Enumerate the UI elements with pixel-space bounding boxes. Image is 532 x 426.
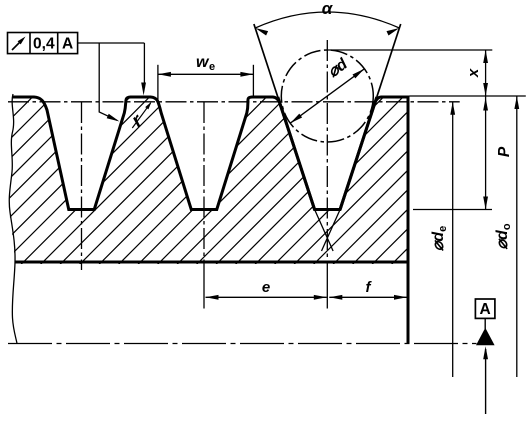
extension line right for w_e bbox=[252, 65, 254, 98]
extension of root line bbox=[413, 209, 492, 211]
thread profile outline bbox=[13, 97, 408, 210]
hatching of sectioned material bbox=[2, 90, 412, 266]
body right edge bbox=[407, 96, 410, 344]
extension of crest top line bbox=[410, 95, 526, 97]
svg-text:e: e bbox=[209, 61, 215, 73]
datum A stem bbox=[484, 318, 486, 329]
extension line for e/f (groove 3 center) bbox=[326, 264, 328, 309]
runout symbol arrow bbox=[12, 39, 23, 50]
crest reference line (dash-dot) bbox=[8, 101, 460, 103]
extension line from circle top bbox=[327, 49, 492, 51]
dimension x bbox=[485, 50, 487, 96]
diameter line d_o bbox=[516, 96, 518, 377]
thread flank extended (V left wall) bbox=[254, 24, 278, 97]
datum A filled triangle bbox=[476, 328, 495, 345]
break line (wavy) bbox=[9, 94, 17, 344]
groove 2 center line bbox=[203, 102, 205, 264]
measuring ball circle (dash-dot) bbox=[281, 50, 373, 142]
groove 1 center line bbox=[81, 102, 83, 270]
svg-text:e: e bbox=[262, 279, 270, 296]
svg-text:P: P bbox=[496, 146, 513, 157]
svg-text:A: A bbox=[62, 36, 73, 53]
angle dimension arc for alpha bbox=[255, 12, 399, 28]
datum A arrow bbox=[485, 349, 487, 414]
dimension f bbox=[329, 296, 407, 298]
svg-text:0,4: 0,4 bbox=[33, 36, 55, 53]
diameter line d_e bbox=[452, 102, 454, 377]
svg-text:α: α bbox=[322, 0, 334, 18]
dimension P bbox=[485, 96, 487, 210]
axis center line (dash-dot) bbox=[8, 343, 477, 345]
svg-text:w: w bbox=[196, 54, 210, 71]
groove 3 center line bbox=[326, 40, 328, 264]
thread flank extended (V right wall) bbox=[377, 24, 401, 97]
leader from tolerance frame bbox=[78, 42, 145, 44]
runout tolerance frame 0,4 A bbox=[8, 33, 78, 54]
leader for crest radius r bbox=[132, 103, 150, 128]
dimension line w_e bbox=[158, 73, 254, 75]
extension line left for w_e bbox=[157, 65, 159, 101]
dimension e bbox=[206, 296, 327, 298]
svg-text:x: x bbox=[465, 68, 482, 78]
flank extensions crossing below root bbox=[315, 210, 334, 252]
svg-text:A: A bbox=[479, 301, 490, 318]
body bottom edge bbox=[15, 261, 408, 264]
dimension line for ball diameter d bbox=[290, 69, 364, 123]
extension line for e (groove 2 center) bbox=[203, 264, 205, 309]
datum A frame bbox=[475, 299, 495, 318]
